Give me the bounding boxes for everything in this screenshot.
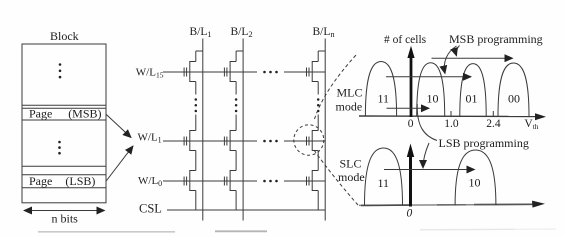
page LSB band bottom line (22, 187, 106, 189)
LSB programming leader up (417, 104, 437, 141)
svg-text:W/L1: W/L1 (138, 132, 162, 145)
svg-text:10: 10 (427, 92, 439, 106)
transistor cell col1 W/L1 (184, 131, 196, 151)
page MSB band bottom line (22, 119, 106, 121)
svg-text:mode: mode (336, 100, 363, 114)
dashed line to SLC plot (314, 150, 358, 205)
svg-text:LSB programming: LSB programming (439, 136, 529, 150)
svg-text:Vth: Vth (524, 118, 538, 131)
wire string-to-bitline connector col2 (236, 50, 243, 52)
arrow 11 to 00 (long, top) (432, 57, 513, 59)
arrow from MSB page to W/L1 (106, 115, 131, 138)
horizontal dots rows between col2 and col3 (263, 71, 278, 183)
svg-text:(LSB): (LSB) (65, 174, 95, 188)
svg-text:MSB programming: MSB programming (449, 32, 543, 46)
svg-text:MLC: MLC (337, 86, 363, 100)
transistor cell col1 W/L0 (184, 171, 196, 191)
distribution hump 11 (MLC) (365, 62, 396, 117)
page MSB band top line (22, 107, 106, 109)
MLC tick 1.0 (450, 111, 452, 116)
svg-text:n bits: n bits (52, 212, 79, 226)
distribution hump 10 (MLC) (417, 63, 445, 116)
svg-text:1.0: 1.0 (444, 118, 459, 130)
distribution hump 11 (SLC) (365, 148, 403, 205)
SLC y axis (409, 155, 412, 207)
column 2 (224, 39, 243, 221)
svg-text:B/L1: B/L1 (190, 26, 212, 39)
transistor cell col2 W/L1 (224, 131, 236, 151)
svg-text:Page: Page (29, 107, 52, 121)
wire string col1 (195, 51, 197, 210)
MSB programming leader arrow 2 (456, 46, 460, 56)
wire string col2 (235, 51, 237, 210)
column 1 (184, 39, 203, 221)
svg-text:Block: Block (50, 29, 79, 43)
transistor cell col1 W/L15 (184, 62, 196, 82)
arrow 11 to 10 (SLC) (384, 169, 475, 171)
column 3 (307, 39, 326, 221)
vertical dots col3 (317, 98, 320, 112)
n bits dimension arrow (24, 210, 105, 212)
transistor cell col2 W/L0 (224, 171, 236, 191)
svg-text:(MSB): (MSB) (68, 107, 101, 121)
SLC x axis (fuzzy grey) (359, 204, 533, 205)
vertical dots in block middle (58, 141, 61, 155)
dashed line to MLC plot (315, 55, 357, 120)
svg-text:0: 0 (407, 208, 413, 220)
svg-text:mode: mode (338, 170, 365, 184)
svg-text:# of cells: # of cells (384, 34, 427, 46)
svg-text:SLC: SLC (340, 157, 362, 171)
svg-text:B/Ln: B/Ln (313, 26, 336, 39)
wire W/L0 (163, 180, 257, 182)
svg-text:11: 11 (378, 92, 390, 106)
MLC tick 2.4 (492, 111, 494, 116)
transistor cell col3 W/L0 (307, 171, 319, 191)
svg-text:W/L0: W/L0 (138, 175, 162, 188)
LSB programming leader down (423, 143, 429, 168)
bit line B/Ln (324, 39, 326, 221)
wire CSL (167, 209, 325, 211)
wire W/L15 (163, 71, 257, 73)
distribution hump 10 (SLC) (455, 150, 496, 205)
block diagram rectangle (22, 44, 106, 203)
MLC y axis (410, 55, 413, 117)
arrow from LSB page to W/L1 (106, 146, 133, 182)
svg-text:B/L2: B/L2 (231, 26, 253, 39)
wire W/L1 (163, 140, 257, 142)
arrow 11 to 10 (short, near axis) (387, 107, 430, 109)
vertical dots col2 (235, 98, 238, 112)
bit line B/L1 (202, 39, 204, 221)
dashed ellipse around selected cell (294, 125, 324, 155)
scan smudge artifacts (38, 231, 175, 233)
distribution hump 01 (MLC) (460, 64, 486, 117)
wire string-to-bitline connector col1 (196, 50, 203, 52)
arrow 11 to 01 (medium) (386, 76, 471, 78)
svg-text:10: 10 (469, 176, 481, 190)
svg-text:0: 0 (408, 118, 414, 130)
line above page LSB band (22, 165, 106, 167)
wire string-to-bitline connector col3 (318, 50, 325, 52)
wire string col3 (317, 51, 319, 210)
transistor cell col3 W/L1 (307, 131, 319, 151)
MLC x axis (359, 115, 537, 118)
MSB programming leader arrow 1 (444, 46, 456, 74)
vertical dots in block top (59, 63, 62, 78)
svg-text:Page: Page (29, 174, 52, 188)
line above page MSB band (22, 104, 106, 106)
svg-text:11: 11 (378, 176, 390, 190)
bit line B/L2 (242, 39, 244, 221)
page LSB band top line (22, 174, 106, 176)
vertical dots col1 (195, 98, 198, 112)
svg-text:01: 01 (466, 92, 478, 106)
svg-text:2.4: 2.4 (486, 118, 501, 130)
transistor cell col3 W/L15 (307, 62, 319, 82)
transistor cell col2 W/L15 (224, 62, 236, 82)
svg-text:00: 00 (508, 92, 520, 106)
distribution hump 00 (MLC) (498, 63, 529, 116)
svg-text:CSL: CSL (139, 202, 162, 216)
svg-text:W/L15: W/L15 (136, 67, 164, 80)
